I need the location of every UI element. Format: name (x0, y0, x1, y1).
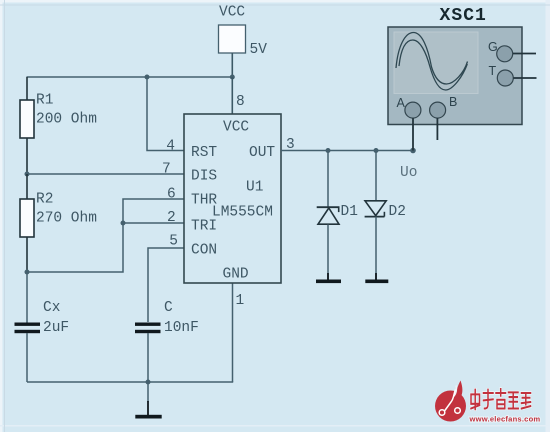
svg-text:5V: 5V (250, 42, 268, 58)
resistor R2 lead top (26, 174, 28, 199)
svg-text:2uF: 2uF (43, 320, 69, 336)
oscilloscope terminal T (489, 64, 514, 86)
value label 2uF (43, 320, 69, 336)
pin number 1 (236, 293, 245, 309)
pin number 2 (167, 210, 176, 226)
diode D1 lead top (327, 151, 329, 208)
svg-text:R2: R2 (36, 192, 53, 208)
svg-text:OUT: OUT (249, 145, 275, 161)
svg-text:T: T (489, 64, 497, 78)
label D2 (389, 204, 406, 220)
junction dot OUT at D2 (374, 148, 379, 153)
svg-text:10nF: 10nF (164, 320, 199, 336)
svg-text:200 Ohm: 200 Ohm (36, 112, 97, 128)
diode D1 symbol cathode-up (317, 207, 340, 224)
wire VCC rail horizontal (27, 76, 233, 78)
diode D2 lead top (375, 151, 377, 202)
capacitor Cx lead top (26, 272, 28, 323)
watermark url www.elecfans.com (469, 415, 541, 424)
capacitor C plates (135, 323, 161, 334)
label R2 (36, 192, 53, 208)
capacitor Cx lead bottom (26, 333, 28, 382)
value label 10nF (164, 320, 199, 336)
svg-text:VCC: VCC (223, 120, 249, 136)
svg-text:D2: D2 (389, 204, 406, 220)
IC label LM555CM (212, 205, 273, 221)
IC label CON (191, 243, 217, 259)
IC label GND (223, 267, 249, 283)
resistor R1 lead top (26, 77, 28, 100)
wire TRI pin (123, 222, 184, 224)
svg-text:6: 6 (167, 187, 176, 203)
ground symbol main (135, 382, 161, 419)
ground symbol D1 (316, 273, 341, 283)
svg-text:C: C (164, 300, 173, 316)
capacitor C lead bottom (147, 333, 149, 382)
svg-text:RST: RST (191, 145, 217, 161)
wire R2 bottom to THR/TRI riser (27, 199, 184, 272)
junction dot R1-R2 DIS node (25, 172, 30, 177)
value label 5V (250, 42, 268, 58)
value label 200 Ohm (36, 112, 97, 128)
svg-text:8: 8 (236, 94, 245, 110)
IC label THR (191, 193, 217, 209)
value label 270 Ohm (36, 211, 97, 227)
svg-text:Cx: Cx (43, 300, 61, 316)
svg-text:G: G (488, 40, 498, 54)
wire scope A probe down to OUT net (412, 118, 414, 151)
wire scope B probe stub (436, 118, 438, 140)
oscilloscope terminal A (397, 96, 421, 118)
oscilloscope terminal G (488, 40, 513, 62)
IC label DIS (191, 169, 217, 185)
svg-text:VCC: VCC (219, 5, 245, 21)
oscilloscope screen (394, 32, 478, 94)
label R1 (36, 93, 53, 109)
label Cx (43, 300, 61, 316)
IC label U1 (246, 180, 263, 196)
pin number 3 (286, 137, 295, 153)
oscilloscope XSC1 label (440, 6, 487, 26)
svg-text:XSC1: XSC1 (440, 6, 487, 26)
svg-text:www.elecfans.com: www.elecfans.com (469, 415, 541, 424)
resistor R1 lead bottom (26, 138, 28, 174)
junction dot VCC rail at RST branch (145, 75, 150, 80)
svg-text:R1: R1 (36, 93, 53, 109)
svg-text:2: 2 (167, 210, 176, 226)
diode D1 lead bottom (327, 225, 329, 281)
junction dot ground tap (146, 380, 151, 385)
op-amp U1 555 timer IC box (184, 114, 281, 283)
label D1 (341, 204, 358, 220)
watermark text dianzifashaoyou (471, 389, 531, 409)
junction dot OUT at D1 (326, 148, 331, 153)
svg-text:270 Ohm: 270 Ohm (36, 211, 97, 227)
junction dot OUT at scope A (410, 148, 416, 154)
oscilloscope terminal B (430, 95, 458, 118)
wire T terminal stub (514, 77, 537, 79)
svg-text:Uo: Uo (400, 165, 417, 181)
ground symbol D2 (365, 273, 388, 283)
junction dot TRI tap (121, 221, 126, 226)
wire OUT net (281, 150, 413, 152)
svg-text:D1: D1 (341, 204, 358, 220)
diode D2 symbol cathode-down (365, 201, 387, 217)
oscilloscope XSC1 body (388, 27, 522, 125)
wire VCC box to rail (231, 53, 233, 77)
junction dot R2-Cx node (25, 270, 30, 275)
wire ground rail bottom (27, 381, 233, 383)
oscilloscope trace curves (396, 33, 468, 91)
pin number 6 (167, 187, 176, 203)
node label Uo (400, 165, 417, 181)
svg-text:A: A (397, 96, 406, 110)
svg-text:TRI: TRI (191, 219, 217, 235)
label C (164, 300, 173, 316)
watermark logo circle (435, 381, 466, 422)
capacitor Cx plates (15, 323, 41, 334)
IC label VCC (223, 120, 249, 136)
wire pin 1 drop (232, 283, 234, 382)
svg-text:5: 5 (169, 234, 178, 250)
IC label OUT (249, 145, 275, 161)
pin number 8 (236, 94, 245, 110)
wire pin 8 drop (231, 77, 233, 114)
svg-text:7: 7 (162, 162, 171, 178)
pin number 5 (169, 234, 178, 250)
pin number 7 (162, 162, 171, 178)
power VCC box (219, 25, 246, 53)
pin number 4 (166, 138, 175, 154)
svg-text:DIS: DIS (191, 169, 217, 185)
resistor R2 body (20, 199, 34, 237)
IC label RST (191, 145, 217, 161)
svg-text:3: 3 (286, 137, 295, 153)
IC label TRI (191, 219, 217, 235)
wire DIS rail (27, 173, 184, 175)
svg-text:1: 1 (236, 293, 245, 309)
wire RST branch vertical (147, 77, 184, 151)
wire CON pin with riser (148, 248, 184, 322)
diode D2 lead bottom (375, 217, 377, 280)
svg-text:4: 4 (166, 138, 175, 154)
svg-text:B: B (449, 95, 457, 109)
junction dot VCC rail at supply drop (230, 75, 235, 80)
power VCC supply label (219, 5, 245, 21)
wire G terminal stub (513, 53, 536, 55)
svg-text:LM555CM: LM555CM (212, 205, 273, 221)
svg-text:U1: U1 (246, 180, 263, 196)
resistor R2 lead bottom (26, 237, 28, 272)
svg-text:CON: CON (191, 243, 217, 259)
resistor R1 body (20, 100, 34, 138)
svg-text:GND: GND (223, 267, 249, 283)
